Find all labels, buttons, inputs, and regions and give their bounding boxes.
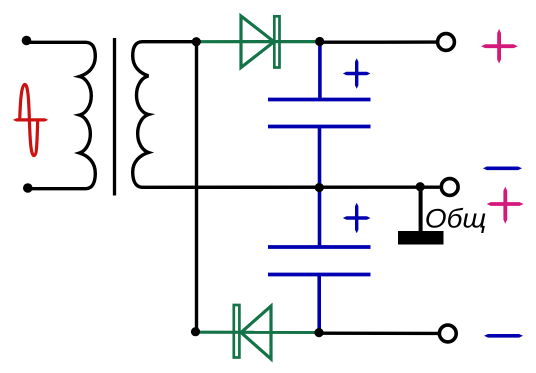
transformer core xyxy=(113,38,116,196)
polarity mark minus at -V output xyxy=(484,334,523,338)
wire: middle common rail xyxy=(141,185,440,189)
junction node -V / C2 xyxy=(314,328,323,337)
AC source V1 sine symbol xyxy=(20,85,38,156)
transformer T1 secondary winding xyxy=(133,42,197,188)
junction node common / C1-C2 xyxy=(315,183,324,192)
capacitor C2 bottom lead xyxy=(317,275,321,333)
diode VD1 triangle xyxy=(241,16,274,68)
terminal dot primary bottom xyxy=(23,183,33,193)
ground symbol bar xyxy=(398,231,444,245)
capacitor C2 polarity plus xyxy=(343,203,371,234)
polarity mark minus at common (upper) xyxy=(483,167,522,171)
diode VD1 cathode bar xyxy=(274,16,279,67)
transformer T1 primary winding xyxy=(27,42,96,188)
capacitor C2 plate top xyxy=(268,245,371,249)
junction node A (secondary top) xyxy=(192,37,201,46)
wire: green anode wire through diode VD1 xyxy=(197,40,321,43)
diode VD2 triangle xyxy=(241,306,271,359)
polarity mark plus at +V output xyxy=(481,29,518,64)
terminal dot primary top xyxy=(22,36,32,46)
polarity mark plus at common (lower) xyxy=(487,187,524,224)
ground lead wire xyxy=(419,187,423,233)
output terminal -V xyxy=(439,325,456,342)
capacitor C1 top lead xyxy=(318,42,322,100)
wire: vertical from node A to node B xyxy=(195,42,198,333)
junction node B (bottom) xyxy=(191,327,200,336)
capacitor C1 plate top xyxy=(268,98,371,102)
wire: bottom rail to -V terminal xyxy=(319,332,438,336)
junction node +V / C1 xyxy=(315,37,324,46)
capacitor C1 polarity plus xyxy=(343,58,371,89)
diode VD2 cathode bar xyxy=(234,305,240,358)
wire: top rail to +V terminal xyxy=(320,40,436,44)
AC source axis bar xyxy=(13,118,48,121)
capacitor C2 plate bottom xyxy=(268,273,371,277)
junction node common / ground xyxy=(416,182,425,191)
wire: green wire through diode VD2 xyxy=(196,331,319,334)
capacitor C2 top lead xyxy=(318,187,322,247)
output terminal common xyxy=(441,179,458,196)
output terminal +V xyxy=(438,34,455,51)
svg-text:Общ: Общ xyxy=(425,204,487,234)
capacitor C1 plate bottom xyxy=(268,125,371,129)
capacitor C1 bottom lead xyxy=(318,127,322,188)
